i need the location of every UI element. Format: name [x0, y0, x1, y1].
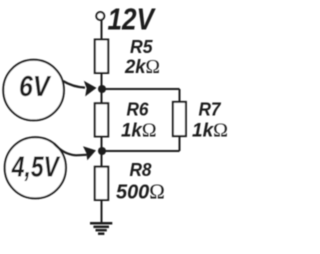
- node A: [98, 85, 106, 93]
- arrow 6V to node A: [63, 81, 85, 88]
- resistor R7: [173, 102, 186, 136]
- svg-text:R6: R6: [127, 98, 150, 119]
- svg-text:1kΩ: 1kΩ: [121, 119, 157, 141]
- wire node A to R7 branch: [102, 88, 180, 90]
- svg-text:R8: R8: [130, 159, 153, 180]
- wire R6 to R8: [101, 137, 103, 168]
- svg-text:1kΩ: 1kΩ: [192, 119, 228, 141]
- wire R7 top: [179, 89, 181, 102]
- wire R7 bottom: [179, 136, 181, 151]
- svg-text:12V: 12V: [108, 2, 157, 36]
- ground: [90, 223, 112, 234]
- svg-text:6V: 6V: [19, 71, 52, 103]
- svg-text:R5: R5: [130, 36, 153, 57]
- svg-text:4,5V: 4,5V: [11, 151, 60, 183]
- svg-text:2kΩ: 2kΩ: [124, 56, 160, 78]
- wire top terminal to R5: [101, 20, 103, 40]
- node B: [98, 147, 106, 155]
- wire R5 to R6: [101, 73, 103, 103]
- terminal: [96, 12, 104, 20]
- resistor R6: [95, 103, 108, 136]
- arrow 4,5V to node B: [54, 144, 87, 156]
- svg-text:500Ω: 500Ω: [116, 180, 165, 204]
- svg-text:R7: R7: [199, 99, 223, 120]
- measurement circle 4,5V: [5, 137, 66, 198]
- wire node B to R7 branch: [102, 150, 180, 152]
- wire R8 to ground: [101, 200, 103, 223]
- resistor R8: [95, 167, 108, 200]
- measurement circle 6V: [3, 60, 64, 121]
- resistor R5: [95, 40, 108, 74]
